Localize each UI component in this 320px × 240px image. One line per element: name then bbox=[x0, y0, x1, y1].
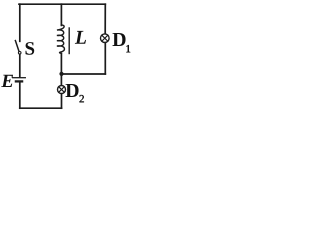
wire right branch top bbox=[104, 4, 106, 33]
lamp D2 cross bbox=[59, 87, 65, 93]
inductor iron core bar bbox=[68, 28, 70, 54]
wire top horizontal bbox=[19, 3, 105, 5]
wire bottom horizontal bbox=[20, 107, 62, 109]
wire middle horizontal (junction to D1 branch) bbox=[62, 73, 106, 75]
label D1 bbox=[113, 33, 126, 46]
switch S blade bbox=[15, 41, 19, 52]
lamp D1 circle bbox=[101, 34, 110, 43]
wire left upper (to switch contact) bbox=[19, 4, 21, 41]
wire left middle (switch to battery) bbox=[19, 54, 21, 77]
lamp D1 cross bbox=[102, 35, 108, 41]
wire middle branch (coil to D2) bbox=[60, 54, 62, 85]
label E bbox=[1, 75, 13, 87]
junction node dot bbox=[59, 72, 63, 76]
battery E long plate bbox=[13, 77, 26, 79]
wire right branch bottom bbox=[104, 43, 106, 74]
switch S pivot bbox=[18, 52, 21, 55]
label S bbox=[26, 42, 35, 55]
label sub1 bbox=[126, 45, 130, 52]
inductor L coil bbox=[57, 25, 65, 54]
wire left lower (battery to bottom) bbox=[19, 83, 21, 109]
label sub2 bbox=[79, 95, 83, 102]
label D2 bbox=[66, 84, 79, 97]
label L bbox=[75, 31, 86, 44]
battery E short plate bbox=[16, 80, 22, 82]
lamp D2 circle bbox=[58, 86, 66, 94]
wire middle branch top bbox=[60, 4, 62, 25]
wire middle branch bottom (D2 to bottom wire) bbox=[61, 94, 63, 108]
